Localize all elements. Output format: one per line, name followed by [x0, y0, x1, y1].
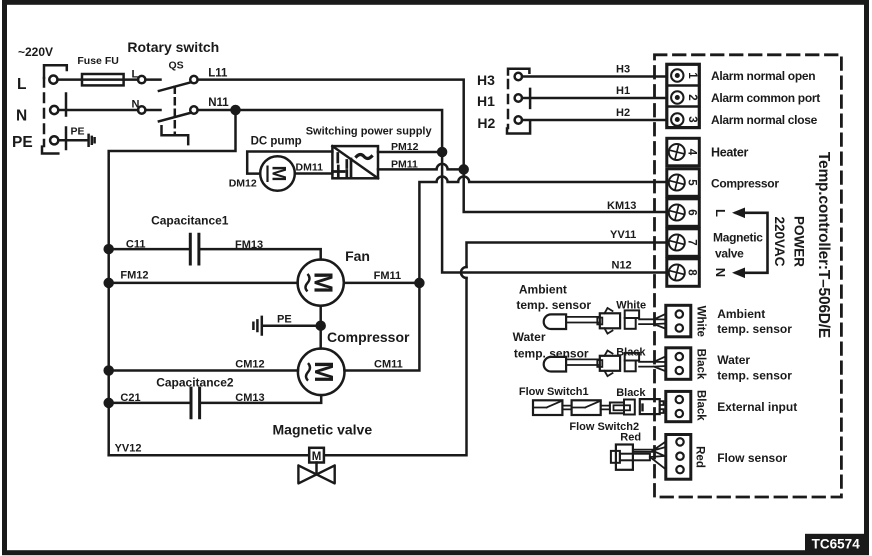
input connector bracket top [44, 65, 67, 78]
node PM11-L11 [460, 165, 468, 173]
svg-text:7: 7 [686, 239, 698, 245]
flow sensor plug [616, 445, 633, 470]
svg-text:Temp.controller:T–506D/E: Temp.controller:T–506D/E [815, 152, 832, 338]
svg-text:Compressor: Compressor [711, 177, 779, 191]
svg-text:N: N [713, 268, 728, 277]
svg-text:Compressor: Compressor [327, 329, 410, 345]
pin tick PE [65, 128, 68, 150]
contact H3 [515, 73, 522, 80]
svg-text:6: 6 [686, 209, 698, 215]
wire CM12 [109, 369, 298, 372]
svg-text:Black: Black [694, 349, 706, 380]
svg-text:CM13: CM13 [235, 392, 264, 404]
wire L11 [198, 80, 667, 212]
water sensor connector housing [600, 356, 620, 371]
flow switch 2 box [572, 400, 601, 415]
terminal 8 block [667, 259, 700, 287]
ambient terminal block [666, 305, 691, 337]
input connector bottom corner [42, 147, 58, 154]
switching power supply box [332, 146, 378, 178]
svg-text:Magnetic valve: Magnetic valve [273, 422, 373, 438]
power bracket arrows [736, 213, 768, 273]
wire to terminal 5 with two hops [419, 177, 666, 283]
wire N to switch [58, 109, 160, 112]
svg-text:Flow Switch1: Flow Switch1 [519, 386, 589, 398]
wire CM11 [345, 283, 420, 371]
svg-text:KM13: KM13 [607, 200, 636, 212]
svg-text:TC6574: TC6574 [812, 536, 861, 551]
terminal 2 contact [671, 91, 683, 103]
wire DM11 [295, 172, 333, 175]
terminal N [50, 106, 58, 114]
svg-text:PE: PE [277, 314, 292, 326]
water terminal block [666, 348, 691, 380]
wire N11 branch to left bus [109, 110, 236, 455]
svg-text:4: 4 [686, 149, 698, 156]
svg-text:PE: PE [71, 126, 85, 138]
rotary switch QS pole L circles [138, 76, 145, 83]
svg-text:Capacitance1: Capacitance1 [151, 214, 229, 228]
svg-text:Black: Black [616, 347, 646, 359]
ambient sensor stem [566, 317, 600, 323]
H connector bottom corner [507, 122, 530, 134]
node PM12 [438, 148, 446, 156]
svg-text:3: 3 [686, 116, 698, 122]
capacitor C1 plates [190, 234, 199, 264]
node CM12 [105, 367, 113, 375]
svg-text:YV12: YV12 [115, 443, 142, 455]
svg-text:DC pump: DC pump [251, 136, 302, 148]
svg-text:M: M [312, 451, 322, 463]
svg-text:Ambient: Ambient [717, 307, 765, 321]
terminal PE [50, 136, 58, 144]
svg-text:PM12: PM12 [391, 141, 419, 153]
fan-compressor link wire [319, 306, 322, 349]
external terminal block [666, 391, 691, 421]
svg-text:N: N [16, 108, 27, 125]
svg-text:Rotary switch: Rotary switch [127, 39, 219, 55]
H connector bracket top [508, 69, 529, 75]
ambient sensor connector housing [600, 313, 620, 328]
svg-text:L: L [17, 76, 26, 93]
terminal L [49, 76, 57, 84]
svg-text:temp. sensor: temp. sensor [516, 298, 591, 312]
external input plug [610, 403, 624, 414]
external input socket [640, 399, 660, 414]
svg-text:CM11: CM11 [374, 359, 403, 371]
capacitor C2 wire left [109, 402, 189, 405]
capacitor C1 wire right to fan [201, 249, 321, 259]
svg-text:Alarm normal open: Alarm normal open [711, 69, 815, 83]
svg-text:Red: Red [694, 446, 706, 468]
svg-text:H1: H1 [616, 85, 630, 97]
svg-text:C21: C21 [120, 392, 140, 404]
svg-text:L: L [713, 209, 728, 217]
svg-text:QS: QS [169, 59, 184, 71]
svg-text:C11: C11 [126, 239, 146, 251]
svg-text:White: White [694, 306, 706, 337]
flow switch link [562, 406, 571, 410]
svg-text:FM11: FM11 [374, 270, 402, 282]
magnetic valve stem [315, 463, 318, 475]
svg-text:M: M [268, 166, 289, 182]
wire FM11 [344, 282, 420, 285]
svg-text:temp. sensor: temp. sensor [514, 347, 589, 361]
TC6574 black box [805, 534, 867, 553]
svg-text:FM13: FM13 [235, 239, 263, 251]
motor glyph Compressor [306, 361, 339, 383]
svg-text:temp. sensor: temp. sensor [717, 322, 792, 336]
wire H3 [522, 75, 667, 78]
svg-text:220VAC: 220VAC [772, 216, 787, 266]
svg-text:N11: N11 [208, 97, 229, 109]
svg-text:M: M [309, 272, 339, 294]
svg-text:H3: H3 [477, 72, 495, 88]
H connector dashed side [507, 80, 510, 128]
input connector dashed side [43, 78, 46, 146]
svg-text:H3: H3 [616, 64, 630, 76]
DC pump loop wire [247, 152, 332, 174]
svg-text:Capacitance2: Capacitance2 [156, 376, 234, 390]
node N11 [232, 106, 240, 114]
svg-text:PE: PE [12, 134, 33, 151]
svg-text:valve: valve [715, 247, 744, 261]
node C11 [105, 245, 113, 253]
svg-text:~220V: ~220V [18, 45, 53, 59]
svg-text:Heater: Heater [711, 146, 749, 160]
svg-text:PM11: PM11 [391, 159, 418, 171]
svg-text:temp. sensor: temp. sensor [717, 369, 792, 383]
temp controller dashed box [655, 55, 842, 497]
svg-text:H1: H1 [477, 93, 495, 109]
wire FM12 [109, 282, 298, 285]
contact H1 [515, 94, 522, 101]
node C21 [105, 399, 113, 407]
fan motor [298, 260, 344, 306]
wire PE to ground [58, 139, 87, 142]
ground PE mid [253, 317, 261, 335]
svg-text:White: White [616, 300, 646, 312]
contact H2 [515, 116, 522, 123]
wire N11 [198, 110, 667, 273]
terminal 4 block [667, 138, 700, 166]
terminal 6 block [667, 199, 700, 227]
node FM12 [105, 279, 113, 287]
node FM11 [415, 279, 423, 287]
svg-text:Ambient: Ambient [519, 283, 567, 297]
wire H1 [522, 97, 667, 100]
svg-text:1: 1 [686, 72, 698, 79]
svg-text:Water: Water [513, 330, 546, 344]
ground PE input [89, 135, 95, 146]
terminal 7 block [667, 229, 700, 256]
svg-text:External input: External input [717, 400, 797, 414]
terminal 1 contact [671, 69, 683, 81]
capacitor C2 wire right to compressor [202, 395, 322, 403]
svg-text:DM11: DM11 [296, 162, 324, 174]
svg-text:Black: Black [694, 390, 706, 421]
magnetic valve body [298, 465, 334, 483]
svg-text:YV11: YV11 [610, 229, 636, 241]
motor glyph DC pump [268, 166, 289, 183]
wire PM11 with hop [378, 164, 464, 170]
water sensor plug [625, 353, 639, 361]
rotary switch link dashed [174, 87, 177, 133]
hop on valve vertical over N12 [461, 267, 467, 278]
svg-text:DM12: DM12 [229, 178, 257, 190]
rotary switch bottom bracket [162, 126, 189, 144]
svg-text:Magnetic: Magnetic [713, 231, 763, 245]
terminal 5 block [667, 169, 700, 197]
svg-text:5: 5 [686, 179, 698, 186]
pin tick N [65, 94, 68, 116]
svg-text:N: N [132, 99, 140, 111]
compressor motor [298, 349, 345, 396]
capacitor C1 wire left [109, 248, 189, 251]
rotary switch QS pole N circles [138, 106, 145, 113]
flow sensor terminal block [666, 435, 691, 480]
wire H2 [522, 119, 667, 122]
node PE mid [317, 322, 325, 330]
switching power supply AC mark [357, 155, 372, 159]
svg-text:N12: N12 [612, 260, 632, 272]
svg-text:Alarm normal close: Alarm normal close [711, 113, 818, 127]
water sensor wires [639, 356, 666, 371]
wire PE mid [263, 324, 321, 327]
magnetic valve M box [309, 448, 324, 463]
ambient sensor plug [625, 310, 639, 318]
svg-text:Alarm common port: Alarm common port [711, 91, 820, 105]
pin tick H1 [529, 89, 532, 108]
flow switch wire to plug [601, 406, 610, 410]
switching power supply DC marks [333, 154, 352, 178]
svg-text:H2: H2 [616, 107, 630, 119]
svg-text:H2: H2 [477, 115, 495, 131]
fuse FU [82, 74, 124, 85]
svg-text:Flow sensor: Flow sensor [717, 451, 787, 465]
rotary switch QS pole N blade [159, 113, 191, 122]
capacitor C2 plates [191, 388, 200, 418]
svg-text:Black: Black [616, 387, 646, 399]
svg-text:CM12: CM12 [235, 359, 264, 371]
motor glyph Fan [306, 272, 339, 294]
ambient sensor bulb [544, 314, 566, 329]
DC pump motor DM [260, 156, 295, 191]
svg-text:Red: Red [620, 432, 641, 444]
svg-text:FM12: FM12 [120, 270, 148, 282]
svg-text:2: 2 [686, 94, 698, 100]
ambient sensor wires [639, 314, 666, 329]
svg-text:Water: Water [717, 353, 750, 367]
svg-text:Fuse FU: Fuse FU [77, 55, 118, 67]
wire L to fuse and switch [58, 78, 161, 81]
terminal 3 contact [671, 113, 683, 125]
svg-text:L11: L11 [208, 68, 228, 80]
wire YV12 valve line [109, 243, 667, 456]
flow sensor wires [633, 442, 666, 470]
wire PM12 [378, 151, 442, 154]
svg-text:M: M [309, 361, 339, 383]
svg-text:Switching power supply: Switching power supply [306, 126, 433, 138]
water sensor bulb [544, 357, 566, 372]
svg-text:POWER: POWER [792, 216, 807, 267]
terminal block 1-3 [667, 64, 700, 127]
svg-text:8: 8 [686, 269, 698, 276]
rotary switch QS pole L blade [159, 82, 191, 91]
svg-text:L: L [132, 68, 139, 80]
flow switch 1 box [533, 400, 562, 415]
water sensor stem [566, 359, 600, 365]
svg-text:Fan: Fan [345, 248, 370, 264]
